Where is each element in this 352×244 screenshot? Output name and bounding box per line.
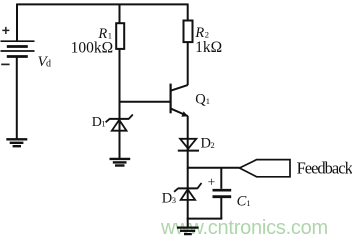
battery plus label (2, 27, 9, 34)
capacitor C1 (213, 190, 232, 197)
wire top rail (17, 3, 188, 5)
wire C1 bottom lead (220, 198, 222, 219)
svg-text:100kΩ: 100kΩ (71, 40, 114, 57)
emitter arrowhead (181, 111, 188, 117)
svg-text:1: 1 (206, 96, 210, 106)
wire battery positive lead (16, 4, 18, 42)
diode D2 (178, 139, 199, 151)
svg-text:1: 1 (101, 119, 105, 129)
svg-text:Q: Q (195, 92, 206, 108)
svg-text:2: 2 (211, 140, 215, 150)
wire R1 top lead (119, 4, 121, 24)
transistor Q1 (171, 84, 188, 116)
wire emitter through D2 to node (187, 116, 189, 169)
wire R2 top lead (187, 4, 189, 21)
svg-text:D: D (201, 136, 211, 152)
wire battery negative lead (16, 57, 18, 140)
wire C1 return to D3 branch (187, 218, 223, 220)
battery Vd (1, 41, 35, 56)
svg-text:+: + (208, 174, 216, 189)
svg-text:3: 3 (172, 195, 176, 205)
resistor R2 (184, 21, 193, 43)
wire R2 to collector (187, 42, 189, 85)
battery minus label (1, 63, 9, 65)
svg-text:1kΩ: 1kΩ (195, 39, 222, 56)
wire node to feedback tag (188, 167, 240, 169)
svg-text:d: d (46, 58, 51, 69)
feedback tag (240, 160, 291, 177)
svg-text:D: D (162, 190, 172, 206)
wire R1 through D1 to ground (119, 49, 121, 159)
wire C1 top lead (220, 168, 222, 189)
svg-text:1: 1 (246, 198, 250, 208)
zener diode D3 (174, 183, 201, 200)
svg-text:Feedback: Feedback (297, 159, 352, 178)
svg-text:D: D (92, 115, 102, 130)
svg-text:C: C (237, 193, 247, 209)
wire node through D3 to ground (187, 168, 189, 228)
wire base (120, 101, 171, 103)
resistor R1 (116, 23, 124, 49)
zener diode D1 (106, 115, 133, 131)
ground D3 (177, 228, 199, 235)
ground D1 (110, 159, 131, 166)
ground battery (6, 139, 27, 146)
